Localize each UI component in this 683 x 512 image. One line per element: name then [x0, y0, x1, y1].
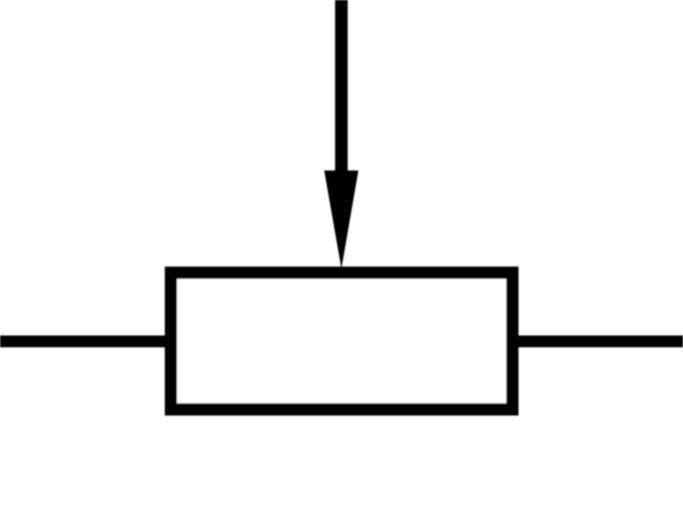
resistor body (potentiometer) [171, 273, 513, 410]
wire wiper vertical [335, 0, 348, 178]
wire left lead [0, 335, 171, 347]
wire right lead [512, 335, 683, 347]
wiper arrowhead [324, 171, 358, 269]
